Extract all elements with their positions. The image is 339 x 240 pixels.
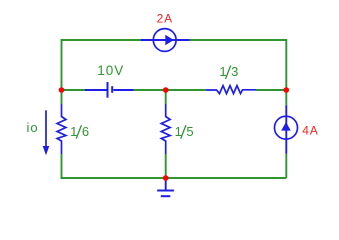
node C (right junction dot) [284,87,290,93]
svg-text:2A: 2A [157,12,173,26]
wire: 1/6 resistor to bottom-left corner and bottom wire to ground node [62,154,166,178]
wire: left node down to 1/6 resistor [61,90,63,104]
svg-text:6: 6 [82,124,89,139]
wire: ground node to bottom-right corner [166,177,287,179]
label 4A [302,124,318,138]
node A (left junction dot) [59,87,65,93]
label 1/6 [70,124,89,139]
wire: middle wire, left node to battery [62,89,86,91]
voltage source V1 10V (battery) [85,82,134,98]
current source I2 4A (circle with up arrow) [275,105,298,154]
resistor R 1/5 (vertical zigzag) [161,104,170,154]
io arrow (current direction) [43,110,50,155]
svg-text:10V: 10V [97,63,124,78]
wire: right node down to 4A source [285,90,287,105]
label 10V [97,63,124,78]
svg-text:io: io [26,120,38,135]
wire: top-left corner to 2A source (top wire left segment) [62,40,141,90]
ground [157,178,174,196]
node B (middle junction dot) [163,87,169,93]
label io [26,120,38,135]
current source I1 2A (circle with right arrow) [141,29,190,52]
svg-text:1: 1 [175,124,182,139]
label 2A [157,12,173,26]
wire: middle wire, 1/3 resistor to right node [256,89,286,91]
svg-text:4A: 4A [302,124,318,138]
svg-text:5: 5 [186,124,193,139]
svg-text:1: 1 [70,124,77,139]
wire: 1/5 resistor to bottom wire ground node [165,154,167,178]
svg-text:1: 1 [219,64,226,79]
svg-text:3: 3 [231,64,238,79]
resistor R 1/6 (vertical zigzag) [57,104,66,154]
label 1/3 [219,64,238,79]
wire: 4A source to bottom-right corner [285,154,287,178]
label 1/5 [175,124,194,139]
resistor R 1/3 (horizontal zigzag) [206,86,256,94]
wire: middle wire, battery to 1/3 resistor (through middle node) [134,89,206,91]
wire: middle node down to 1/5 resistor [165,90,167,104]
wire: 2A source to top-right corner (top wire right segment) [190,40,287,90]
node D (ground junction dot) [163,175,169,181]
